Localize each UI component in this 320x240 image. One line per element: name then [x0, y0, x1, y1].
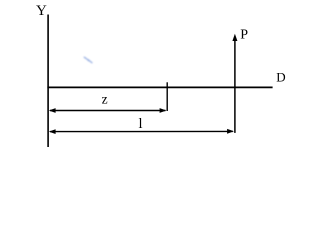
svg-text:Y: Y — [36, 3, 47, 19]
force P arrowhead — [232, 34, 237, 41]
svg-text:P: P — [240, 28, 248, 43]
blue smudge artifact — [84, 57, 92, 62]
svg-text:z: z — [102, 91, 108, 106]
beam horizontal line to D — [47, 86, 272, 88]
z dimension line — [50, 110, 166, 112]
force P arrow line — [234, 39, 236, 133]
z dimension left arrowhead — [49, 108, 56, 113]
z dimension right arrowhead — [160, 108, 167, 113]
svg-text:l: l — [139, 116, 143, 132]
l dimension line — [50, 130, 233, 132]
l dimension left arrowhead — [49, 129, 56, 134]
Y axis vertical line — [47, 15, 49, 148]
l dimension right arrowhead — [227, 129, 234, 134]
svg-text:D: D — [276, 70, 285, 85]
tick at z — [166, 82, 168, 111]
